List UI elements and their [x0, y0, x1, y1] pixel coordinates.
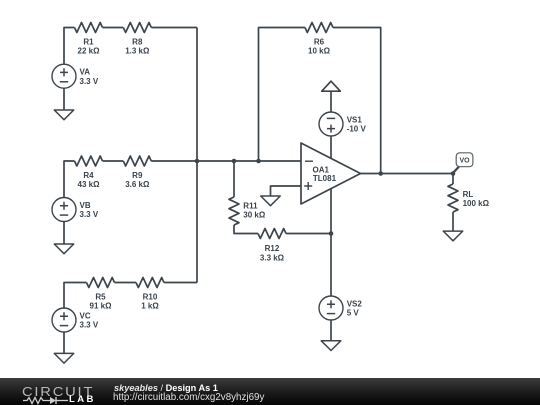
svg-text:3.3 V: 3.3 V — [80, 77, 99, 86]
wire R9 to op-amp inverting input — [151, 160, 301, 162]
resistor R6 — [305, 23, 333, 33]
ground below RL — [443, 231, 463, 241]
resistor R1 — [75, 23, 103, 33]
wire VA to ground — [63, 88, 65, 110]
junction feedback tap — [256, 159, 261, 164]
svg-text:R9: R9 — [132, 171, 143, 180]
wire VS1 to power arrow — [330, 92, 332, 113]
footer bar — [0, 378, 540, 405]
voltage source VC — [52, 308, 76, 332]
resistor R12 — [258, 229, 286, 239]
wire feedback left vertical — [259, 28, 306, 162]
svg-text:VC: VC — [80, 311, 91, 320]
junction feedback output — [378, 171, 383, 176]
svg-text:VS1: VS1 — [347, 115, 363, 124]
svg-text:30 kΩ: 30 kΩ — [243, 210, 266, 219]
ground below VC — [54, 353, 74, 363]
junction output node — [451, 171, 456, 176]
wire R5 to R10 — [115, 282, 137, 284]
junction R11 tap — [232, 159, 237, 164]
voltage source VB — [52, 198, 76, 222]
op-amp OA1 triangle — [301, 143, 361, 204]
svg-text:43 kΩ: 43 kΩ — [78, 180, 101, 189]
junction R12 rail — [329, 231, 334, 236]
resistor R10 — [136, 278, 164, 288]
wire R12 to VS2 rail — [286, 233, 331, 235]
node VO box — [456, 153, 473, 167]
svg-text:R8: R8 — [132, 38, 143, 47]
wire op-amp V+ to VS1 — [330, 136, 332, 158]
CircuitLab logo LAB — [69, 395, 96, 405]
svg-text:TL081: TL081 — [313, 174, 337, 183]
wire R4 to R9 — [103, 160, 124, 162]
svg-text:R11: R11 — [243, 201, 258, 210]
svg-text:91 kΩ: 91 kΩ — [90, 302, 113, 311]
resistor RL — [448, 184, 458, 212]
ground below VS2 — [321, 341, 341, 351]
wire plus input to ground — [271, 186, 302, 196]
ground below VB — [54, 244, 74, 254]
svg-text:3.6 kΩ: 3.6 kΩ — [125, 180, 150, 189]
op-amp plus input sign — [304, 182, 312, 190]
resistor R11 — [229, 197, 239, 225]
wire VC to ground — [63, 332, 65, 353]
svg-text:10 kΩ: 10 kΩ — [308, 47, 331, 56]
voltage source VS1 — [319, 112, 343, 136]
wire RL to ground — [452, 212, 454, 231]
svg-text:R1: R1 — [83, 38, 94, 47]
svg-text:R4: R4 — [83, 171, 94, 180]
wire output to RL — [452, 174, 454, 185]
svg-text:3.3 V: 3.3 V — [80, 321, 99, 330]
wire op-amp output — [361, 173, 454, 175]
svg-text:R10: R10 — [143, 293, 158, 302]
ground at plus input — [261, 196, 281, 206]
resistor R5 — [87, 278, 115, 288]
CircuitLab logo waveform glyph — [23, 396, 69, 405]
wire R8 to bus — [151, 27, 197, 29]
wire from VC to R5 — [64, 283, 87, 309]
ground below VA — [54, 110, 74, 120]
op-amp minus input sign — [305, 160, 313, 162]
wire from VB to R4 — [64, 161, 75, 198]
wire neg input to R11 — [233, 161, 235, 197]
power arrow above VS1 — [322, 81, 341, 91]
voltage source VS2 — [319, 296, 343, 320]
svg-text:-10 V: -10 V — [347, 125, 367, 134]
bus wire vertical — [196, 28, 198, 283]
svg-text:R5: R5 — [95, 293, 106, 302]
svg-text:3.3 V: 3.3 V — [80, 210, 99, 219]
wire op-amp V- to VS2 — [330, 189, 332, 296]
wire feedback right vertical — [333, 28, 381, 174]
resistor R8 — [123, 23, 151, 33]
junction bus row2 — [195, 159, 200, 164]
svg-text:VB: VB — [80, 201, 91, 210]
svg-text:5 V: 5 V — [347, 309, 360, 318]
svg-text:VS2: VS2 — [347, 299, 363, 308]
wire R11 to R12 — [234, 225, 258, 234]
svg-text:100 kΩ: 100 kΩ — [463, 199, 490, 208]
footer url text — [113, 393, 264, 403]
wire R10 to bus — [164, 282, 197, 284]
svg-text:R6: R6 — [314, 38, 325, 47]
svg-text:R12: R12 — [265, 244, 280, 253]
svg-text:VO: VO — [459, 158, 470, 165]
wire VS2 to ground — [330, 320, 332, 341]
CircuitLab logo CIRCUIT — [22, 385, 94, 398]
node VO terminal link — [453, 167, 459, 174]
wire from VA to R1 and top rail — [64, 28, 75, 65]
svg-text:1 kΩ: 1 kΩ — [141, 302, 159, 311]
svg-text:RL: RL — [463, 190, 474, 199]
footer title text — [114, 384, 218, 393]
svg-text:VA: VA — [80, 68, 91, 77]
wire VB to ground — [63, 222, 65, 245]
resistor R4 — [75, 156, 103, 166]
svg-text:3.3 kΩ: 3.3 kΩ — [260, 253, 285, 262]
voltage source VA — [52, 64, 76, 88]
wire R1 to R8 — [103, 27, 124, 29]
svg-text:22 kΩ: 22 kΩ — [78, 47, 101, 56]
svg-text:1.3 kΩ: 1.3 kΩ — [125, 47, 150, 56]
resistor R9 — [123, 156, 151, 166]
